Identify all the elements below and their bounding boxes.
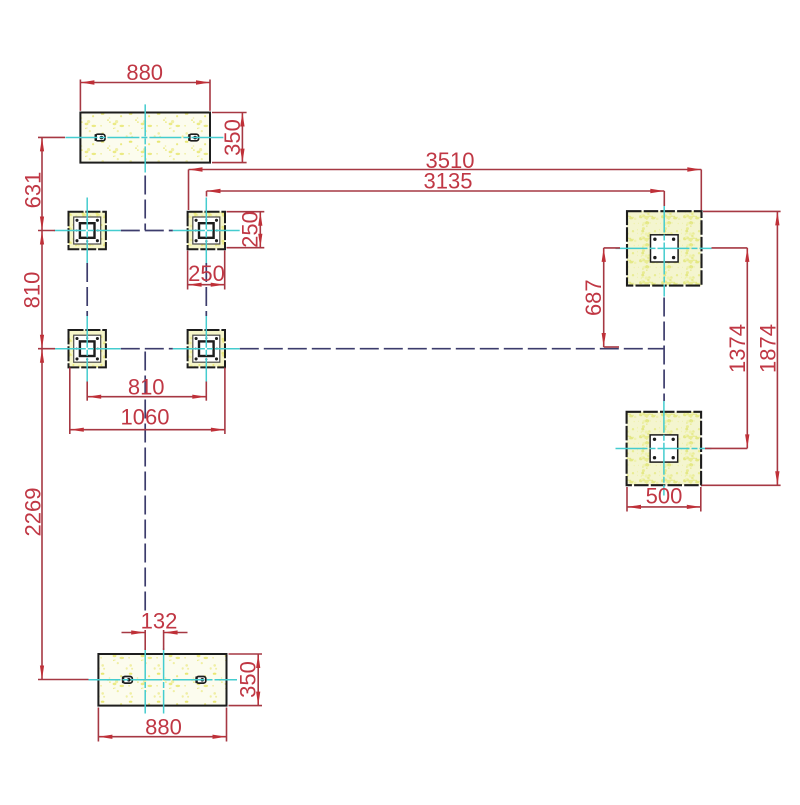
footing FD4 (bottom strip 880x350) outline [98, 654, 226, 706]
footing F2b (row1 col2) column base plate [199, 223, 214, 238]
footing FD4 (bottom strip 880x350) anchor bolt 2 [196, 677, 206, 684]
dimension 880 (bottom strip width) [98, 708, 226, 742]
centerline pad P3b horizontal [616, 448, 712, 450]
centerline footing F2b (row1 col2) horizontal [173, 230, 240, 232]
dimension 132 (axis offset at bottom strip) [122, 609, 188, 651]
grid line axis between right pads [663, 298, 665, 402]
dimension 500 (pad P3b width) [627, 483, 701, 511]
centerline pad P3a vertical [663, 201, 665, 297]
dimension 250 (footing F2b height) [227, 211, 265, 248]
centerline bottom strip vertical B [163, 648, 165, 714]
dimension 880 (top strip width) [80, 60, 210, 111]
svg-text:1874: 1874 [755, 324, 780, 373]
grid line axis col1 between rows [86, 263, 88, 316]
centerline footing F2d (row2 col2) vertical [205, 316, 207, 382]
pad P3b (right lower) column base plate with bolts [650, 435, 678, 462]
dimension 350 (top strip height) [212, 113, 247, 163]
footing F2c (row2 col1) pad outline (250x250) [69, 330, 106, 367]
grid line axis row2 to right pads [240, 348, 664, 350]
svg-text:500: 500 [646, 483, 683, 508]
footing F2c (row2 col1) anchor bolts [75, 337, 99, 361]
dimension 3135 (axis to pad axis) [207, 169, 665, 206]
centerline bottom strip vertical A [144, 648, 146, 714]
footing F2a (row1 col1) anchor bolts [75, 219, 99, 243]
pad P3b (right lower) pad outline (500x500) [627, 412, 702, 485]
footing F2d (row2 col2) anchor bolts [195, 337, 219, 361]
centerline top strip horizontal [65, 137, 223, 139]
dimension 810 (left, row1 to row2) [19, 231, 55, 349]
centerline pad P3b vertical [663, 401, 665, 496]
centerline footing F2c (row2 col1) horizontal [54, 348, 121, 350]
footing F2b (row1 col2) anchor bolts [195, 219, 219, 243]
svg-text:687: 687 [581, 279, 606, 316]
svg-text:1060: 1060 [121, 405, 170, 430]
footing F2c (row2 col1) column base plate [80, 341, 95, 356]
centerline footing F2d (row2 col2) horizontal [173, 348, 240, 350]
footing F2d (row2 col2) column base plate [199, 341, 214, 356]
svg-text:250: 250 [237, 211, 262, 248]
grid line axis row1 between footings [121, 230, 173, 232]
pad P3a (right upper) pad outline (500x500) [627, 211, 702, 285]
footing F2a (row1 col1) column base plate [80, 223, 95, 238]
centerline footing F2b (row1 col2) vertical [205, 198, 207, 264]
svg-text:880: 880 [145, 715, 182, 740]
svg-text:631: 631 [20, 172, 45, 209]
svg-text:810: 810 [128, 375, 165, 400]
footing F2a (row1 col1) pad outline (250x250) [69, 212, 106, 249]
centerline pad P3a horizontal [616, 247, 712, 249]
grid line axis col2 between rows [205, 263, 207, 316]
svg-text:350: 350 [235, 661, 260, 698]
svg-text:132: 132 [141, 609, 178, 634]
dimension 810 (col1 to col2 axes) [87, 375, 206, 401]
dimension 3510 (overall span) [189, 148, 702, 210]
svg-text:3135: 3135 [424, 169, 473, 194]
grid line axis row2 between footings [121, 348, 173, 350]
dimension 1874 (pad outer extent) [702, 211, 781, 485]
pad P3a (right upper) column base plate with bolts [651, 235, 679, 262]
centerline top strip vertical [144, 104, 146, 172]
centerline footing F2a (row1 col1) vertical [86, 198, 88, 264]
svg-text:250: 250 [188, 261, 225, 286]
centerline footing F2c (row2 col1) vertical [86, 316, 88, 382]
svg-text:2269: 2269 [21, 488, 46, 537]
footing FD4 (bottom strip 880x350) anchor bolt 1 [123, 677, 133, 684]
dimension 1060 (outer footing edges) [70, 368, 225, 435]
footing FD1 (top strip 880x350) outline [80, 113, 210, 163]
svg-text:350: 350 [220, 119, 245, 156]
dimension 2269 (left, row2 to bottom strip) [21, 349, 89, 680]
svg-text:880: 880 [126, 60, 163, 85]
dimension 1374 (pad axes spacing) [705, 248, 750, 449]
footing F2d (row2 col2) pad outline (250x250) [188, 330, 225, 367]
svg-text:1374: 1374 [725, 324, 750, 373]
grid line column axis x=145 lower [144, 352, 146, 615]
dimension 631 (left, strip axis to row1) [20, 137, 65, 230]
dimension 687 (pad P3a axis to row2) [581, 248, 620, 347]
grid line column axis x=145 upper [144, 176, 146, 231]
footing FD1 (top strip 880x350) anchor bolt 1 [95, 134, 105, 141]
footing F2b (row1 col2) pad outline (250x250) [188, 212, 225, 249]
svg-text:810: 810 [19, 272, 44, 309]
centerline footing F2a (row1 col1) horizontal [54, 230, 121, 232]
footing FD1 (top strip 880x350) anchor bolt 2 [189, 134, 199, 141]
dimension 250 (footing F2b width) [188, 251, 225, 290]
dimension 350 (bottom strip height) [229, 654, 263, 706]
centerline bottom strip horizontal [89, 679, 238, 681]
